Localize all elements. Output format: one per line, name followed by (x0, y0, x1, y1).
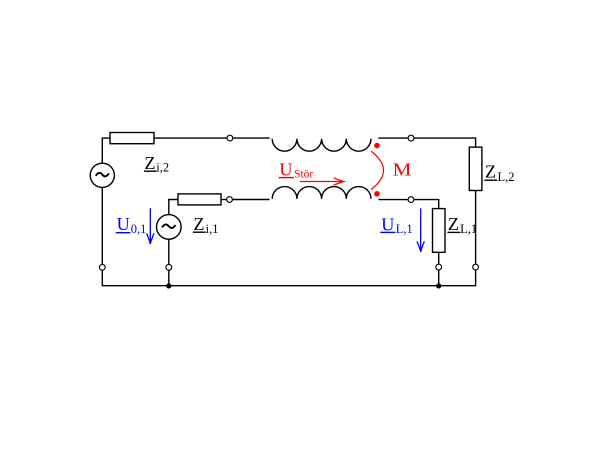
terminal open circle below Z_L,1 (436, 264, 442, 270)
wire left corner into bottom rail (102, 270, 475, 286)
arrow U_Stoer (red, right) (300, 178, 344, 185)
wire top right corner down to Z_L,2 (414, 138, 476, 147)
wire terminal to inductor L1 (232, 199, 269, 201)
svg-text:U: U (381, 214, 394, 234)
inductor L2 (top winding, arcs below line) (272, 139, 371, 151)
svg-text:Z: Z (193, 214, 204, 234)
terminal open circle row2 left (227, 197, 233, 203)
label Z_i,1 (193, 214, 219, 236)
wire row2 corner to resistor Z_i,1 (169, 200, 178, 215)
svg-text:Z: Z (485, 162, 496, 182)
svg-text:L,2: L,2 (498, 170, 515, 184)
arrow U_L,1 (blue, down) (417, 208, 424, 251)
wire resistor to terminal row2 (221, 199, 227, 201)
wire top rail resistor to terminal (154, 137, 227, 139)
resistor Z_L,1 (433, 209, 446, 253)
junction dot right (436, 283, 441, 288)
terminal open circle right bottom (473, 264, 479, 270)
terminal open circle bottom left (99, 264, 105, 270)
resistor Z_i,2 (110, 133, 154, 144)
wire terminal to inductor L2 (233, 137, 270, 139)
wire Z_L,2 down to terminal (475, 191, 477, 265)
coupling dot bottom (red) (374, 191, 380, 197)
inductor L1 (bottom winding, arcs above line) (272, 187, 371, 199)
terminal open circle top right (408, 135, 414, 141)
svg-text:Z: Z (144, 153, 155, 173)
coupling dot top (red) (374, 143, 380, 149)
label U_Stoer (red) (279, 159, 314, 180)
svg-text:M: M (393, 159, 412, 179)
terminal open circle below U_0,1 (166, 264, 172, 270)
terminal open circle row2 right (408, 197, 414, 203)
svg-text:Z: Z (448, 214, 459, 234)
junction dot left (166, 283, 171, 288)
wire Z_L,1 down to terminal (438, 252, 440, 264)
wire row2 corner down to Z_L,1 (414, 200, 439, 209)
label M (red) (393, 159, 412, 179)
svg-text:i,1: i,1 (206, 222, 219, 236)
svg-text:L,1: L,1 (396, 222, 413, 236)
label Z_i,2 (144, 153, 169, 175)
label U_0,1 (blue) (116, 214, 147, 236)
svg-text:i,2: i,2 (156, 161, 169, 175)
source U_0 AC symbol (left, ~) (90, 163, 114, 187)
resistor Z_L,2 (469, 147, 482, 190)
mutual coupling arc M (red) (371, 151, 383, 190)
svg-text:U: U (279, 159, 292, 179)
svg-text:0,1: 0,1 (131, 222, 147, 236)
wire terminal to junction (168, 270, 170, 286)
arrow U_0,1 (blue, down) (147, 208, 154, 244)
source U_0,1 AC symbol (~) (157, 215, 182, 240)
svg-text:L,1: L,1 (460, 222, 477, 236)
label Z_L,2 (484, 162, 514, 184)
svg-text:Stör: Stör (294, 168, 313, 180)
wire inductor L2 to terminal (378, 137, 408, 139)
terminal open circle top rail (227, 135, 233, 141)
wire left vertical top + top rail to resistor (102, 138, 110, 163)
resistor Z_i,1 (178, 194, 221, 205)
wire source U_0,1 down to terminal (168, 239, 170, 264)
wire terminal to junction (438, 270, 440, 287)
label Z_L,1 (447, 214, 477, 236)
svg-text:U: U (117, 214, 130, 234)
wire terminal down to bottom rail (475, 270, 477, 287)
label U_L,1 (blue) (380, 214, 413, 236)
wire left source down to terminal (101, 187, 103, 264)
wire inductor L1 to terminal (378, 199, 408, 201)
